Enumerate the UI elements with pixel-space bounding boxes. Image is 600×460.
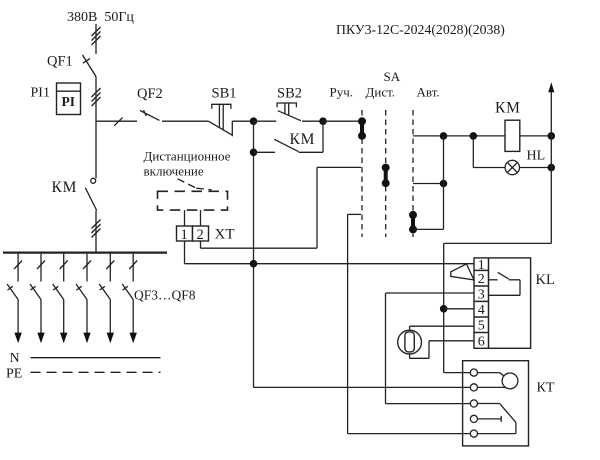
wire: XT2 down and right bbox=[201, 167, 362, 248]
three-phase mark bbox=[92, 27, 101, 45]
svg-text:XT: XT bbox=[215, 227, 235, 243]
svg-text:PE: PE bbox=[6, 367, 22, 382]
wire: photoresistor bottom stub bbox=[409, 354, 411, 358]
svg-text:KL: KL bbox=[536, 272, 555, 288]
junction node bbox=[250, 260, 258, 268]
remote device dashed box bbox=[158, 191, 228, 210]
wire KL3 to KT3 bbox=[386, 293, 475, 404]
KL coil (triangle) bbox=[451, 264, 474, 280]
KT pin circle 2 bbox=[470, 384, 477, 391]
svg-text:1: 1 bbox=[181, 227, 188, 243]
junction node bbox=[250, 117, 258, 125]
KT pin circle 3 bbox=[470, 400, 477, 407]
svg-text:PI1: PI1 bbox=[31, 86, 50, 101]
svg-text:HL: HL bbox=[527, 149, 546, 164]
wire bbox=[413, 183, 444, 185]
wire: photoresistor top stub bbox=[409, 326, 411, 330]
terminal block XT pin 2 bbox=[193, 226, 209, 243]
feeder arrow bbox=[130, 333, 137, 344]
SA column 2 (dashed) bbox=[385, 110, 387, 237]
feeder QF6 bbox=[76, 254, 91, 333]
KL pin dividers bbox=[474, 270, 489, 332]
svg-text:SB2: SB2 bbox=[277, 86, 302, 102]
single-phase slash bbox=[114, 117, 122, 125]
svg-text:Авт.: Авт. bbox=[417, 85, 440, 100]
wire to KL pin 4 bbox=[444, 308, 474, 310]
wire: long run XT1 to KL1 bbox=[185, 263, 475, 265]
wire bbox=[299, 121, 324, 152]
feeder QF4 bbox=[30, 254, 45, 333]
svg-text:QF2: QF2 bbox=[137, 86, 163, 102]
wire bbox=[254, 151, 276, 153]
KT pin circle 5 bbox=[470, 430, 477, 437]
PE bus (dashed) bbox=[31, 371, 161, 373]
svg-text:КМ: КМ bbox=[290, 131, 316, 148]
SA contact 3 bbox=[409, 211, 417, 234]
svg-text:QF1: QF1 bbox=[47, 54, 73, 70]
KT contact blade (pin 3) bbox=[478, 404, 516, 423]
wire: HL branch bbox=[473, 136, 505, 168]
contact KM aux (NO) bbox=[274, 139, 298, 151]
wire: drop to bus bbox=[95, 211, 97, 253]
wire bbox=[520, 167, 552, 169]
three-phase mark (meter tap) bbox=[92, 88, 101, 106]
wire: vertical branch down bbox=[253, 121, 255, 387]
svg-text:PI: PI bbox=[62, 94, 76, 109]
feeder arrow bbox=[14, 333, 21, 344]
wire: control branch from main line bbox=[96, 120, 137, 122]
junction node bbox=[440, 305, 448, 313]
feeder QF7 bbox=[99, 254, 114, 333]
svg-text:380В 50Гц: 380В 50Гц bbox=[67, 10, 134, 25]
svg-text:Руч.: Руч. bbox=[330, 85, 354, 100]
arrow (output up) bbox=[548, 82, 554, 92]
feeder arrow bbox=[83, 333, 90, 344]
KT pin circle 4 bbox=[470, 415, 477, 422]
junction node bbox=[440, 180, 448, 188]
wire: down to KT1 bbox=[444, 243, 552, 372]
KT motor bbox=[502, 373, 518, 389]
meter PI1 bbox=[57, 83, 81, 115]
wire KL6 to photoresistor bbox=[410, 341, 474, 359]
svg-text:5: 5 bbox=[478, 319, 485, 334]
wire: main drop bbox=[95, 77, 97, 179]
wire: lead to XT2 bbox=[200, 210, 202, 226]
wire: lead to XT1 bbox=[184, 210, 186, 226]
remote contact bbox=[178, 179, 212, 190]
wire: XT1 down bbox=[184, 241, 186, 264]
bus bar bbox=[3, 252, 167, 254]
photoresistor BL bbox=[398, 330, 422, 354]
junction node bbox=[250, 149, 258, 157]
SA column 1 (dashed) bbox=[361, 110, 363, 237]
junction node bbox=[548, 132, 556, 140]
svg-text:ПКУ3-12С-2024(2028)(2038): ПКУ3-12С-2024(2028)(2038) bbox=[336, 22, 505, 38]
time relay KT box bbox=[463, 361, 529, 446]
svg-text:КМ: КМ bbox=[52, 179, 78, 196]
feeder arrow bbox=[107, 333, 114, 344]
wire KT2 left run bbox=[254, 386, 471, 388]
feeder QF3 bbox=[7, 254, 22, 333]
coil KM bbox=[505, 120, 520, 151]
svg-text:QF3…QF8: QF3…QF8 bbox=[134, 288, 196, 303]
wire: blade to pin 5 bbox=[478, 422, 516, 433]
junction node bbox=[548, 164, 556, 172]
svg-text:1: 1 bbox=[478, 258, 485, 273]
terminal block XT pin 1 bbox=[177, 226, 193, 243]
wire: right riser bbox=[550, 92, 552, 244]
wire KT2 to motor bbox=[478, 386, 506, 388]
wire bbox=[413, 228, 444, 230]
wire KL5 to photoresistor bbox=[410, 325, 474, 327]
svg-text:SB1: SB1 bbox=[212, 86, 237, 102]
SA contact 2 bbox=[382, 164, 390, 188]
wire KT1 to motor bbox=[478, 373, 505, 377]
wire to SA bbox=[323, 120, 361, 122]
lamp HL bbox=[505, 160, 519, 174]
svg-text:3: 3 bbox=[478, 288, 485, 303]
junction node bbox=[470, 132, 478, 140]
contactor KM main contact bbox=[85, 178, 96, 210]
breaker QF2 bbox=[140, 110, 160, 120]
feeder QF8 bbox=[122, 254, 137, 333]
relay KL box bbox=[474, 258, 531, 348]
wire: SA row to KT5 branch bbox=[348, 214, 471, 433]
wire bbox=[520, 135, 552, 137]
svg-text:SA: SA bbox=[384, 69, 401, 84]
svg-text:КТ: КТ bbox=[537, 381, 555, 396]
three-phase mark (below KM) bbox=[92, 220, 101, 238]
wire: supply drop bbox=[95, 24, 97, 54]
junction node bbox=[440, 132, 448, 140]
wire bbox=[162, 120, 209, 122]
KT fixed contact (pin 4) bbox=[478, 416, 502, 422]
junction node bbox=[319, 117, 327, 125]
wire bbox=[254, 120, 277, 122]
svg-text:N: N bbox=[10, 351, 20, 366]
feeder QF5 bbox=[53, 254, 68, 333]
svg-text:КМ: КМ bbox=[495, 100, 521, 117]
svg-text:2: 2 bbox=[197, 227, 204, 243]
SA contact 1 bbox=[358, 117, 366, 140]
wire bbox=[232, 120, 253, 122]
feeder arrow bbox=[37, 333, 44, 344]
N bus bbox=[31, 357, 161, 359]
SA column 3 (dashed) bbox=[412, 110, 414, 237]
wire bbox=[443, 136, 445, 230]
wire: coil feed row bbox=[413, 135, 505, 137]
breaker QF1 bbox=[83, 55, 97, 77]
svg-text:включение: включение bbox=[144, 164, 204, 179]
svg-text:Дист.: Дист. bbox=[366, 85, 396, 100]
svg-text:Дистанционное: Дистанционное bbox=[144, 149, 231, 164]
KL contact (pins 2-3) bbox=[489, 272, 521, 295]
svg-text:6: 6 bbox=[478, 334, 485, 349]
pushbutton SB1 (NC) bbox=[209, 104, 233, 136]
pushbutton SB2 (NO) bbox=[277, 103, 301, 121]
svg-text:2: 2 bbox=[478, 272, 485, 287]
wire bbox=[302, 120, 323, 122]
svg-text:4: 4 bbox=[478, 303, 485, 318]
KL terminal column divider bbox=[488, 258, 490, 348]
KT pin circle 1 bbox=[470, 369, 477, 376]
feeder arrow bbox=[60, 333, 67, 344]
